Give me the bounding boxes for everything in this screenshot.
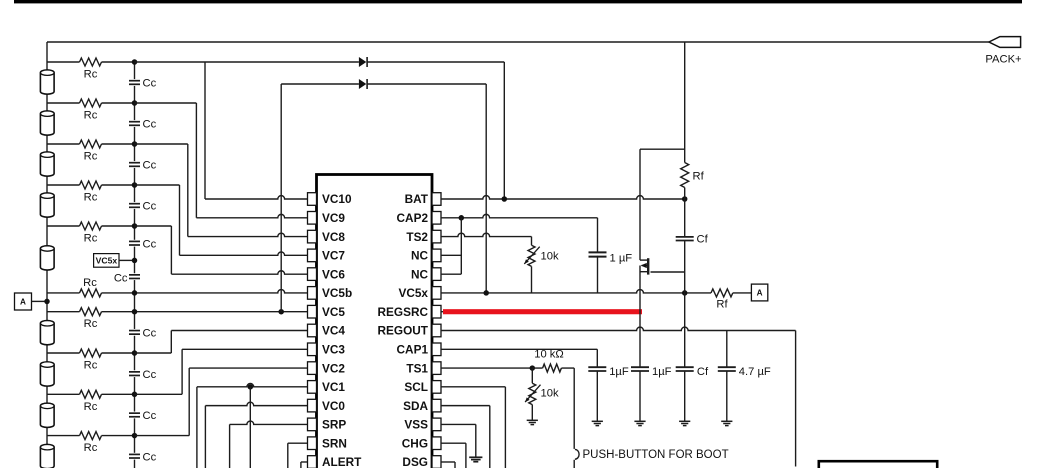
label R3 10 kOhm [534,349,564,361]
capacitor Cc2 [129,120,141,127]
junction VC5x chain [132,258,138,264]
svg-text:Cc: Cc [143,119,157,131]
wire VC5x label [119,259,135,261]
connector PACK+ [985,37,1021,66]
wire SRN pin row [288,442,308,444]
cell B4 [40,362,54,386]
resistor Rc8 [80,390,102,398]
label C4 1uF [652,366,672,378]
wire SRP riser [229,424,231,468]
wire CHG row [441,443,466,468]
wire VC5b row [47,290,308,293]
junction node3 [132,141,138,147]
resistor Rf1 [681,163,689,188]
wire gate [651,271,685,273]
svg-text:VC3: VC3 [322,342,345,356]
svg-text:Rf: Rf [716,299,728,311]
push-button contact [575,449,579,459]
node A right [751,284,767,301]
wire CAP1 row [441,349,597,421]
wire NC tie [441,218,461,274]
pin SCL [404,380,441,394]
capacitor Cc1 [129,79,141,86]
svg-text:SCL: SCL [404,380,428,394]
svg-text:VC8: VC8 [322,230,345,244]
svg-text:A: A [757,289,763,298]
svg-text:Rf: Rf [693,171,705,183]
pin VC9 [308,211,346,225]
wire VC6 pin row [171,271,307,274]
pin SDA [403,399,441,413]
label C3 1uF [609,366,629,378]
cell B10 [40,70,54,94]
svg-text:Rc: Rc [84,401,98,413]
junction node8 [132,392,138,398]
svg-text:Rc: Rc [84,233,98,245]
wire SRN riser [287,443,289,468]
label Cc2 [143,119,157,131]
wire node5 to VC6 [135,226,172,274]
capacitor Cc3 [129,161,141,168]
svg-text:VC4: VC4 [322,324,345,338]
resistor Rc7 [80,349,102,357]
svg-text:VC2: VC2 [322,361,345,375]
junction node2 [132,100,138,106]
svg-text:1 µF: 1 µF [610,253,633,265]
svg-text:Cc: Cc [114,273,128,285]
pin TS2 [406,230,441,244]
wire VC1 riser [196,387,198,468]
label Cc4 [143,201,157,213]
label Rc4 [84,192,98,204]
label Cf2 [697,366,709,378]
wire VC7 pin row [180,252,308,255]
wire Rc4 row [47,184,135,186]
pin ALERT [308,455,363,468]
pin VC2 [308,361,346,375]
pin NC [411,267,441,281]
top rule bar [14,0,1022,3]
cell B8 [40,152,54,176]
svg-text:VC5x: VC5x [398,286,428,300]
wire Cc chain [134,62,136,468]
svg-text:DSG: DSG [402,455,428,468]
cell B5 [40,321,54,345]
wire VC5 to diode D2 [281,83,359,85]
label Cc1 [143,78,157,90]
wire 4.7uF drop [726,330,728,421]
svg-text:10 kΩ: 10 kΩ [534,349,564,361]
svg-text:Rc: Rc [84,442,98,454]
svg-text:REGSRC: REGSRC [378,305,429,319]
svg-text:VC0: VC0 [322,399,345,413]
capacitor C5 4.7uF [718,367,736,371]
wire node1 to diode D1 [135,61,359,63]
svg-text:ALERT: ALERT [322,455,362,468]
wire SRP pin row [230,421,308,424]
svg-text:Cc: Cc [143,369,157,381]
resistor Rc9 [80,432,102,440]
resistor Rc2 [80,99,102,107]
wire battery stack [46,42,48,468]
label Rc VC5b [83,277,97,289]
label Cc6 [114,273,128,285]
pin VC7 [308,249,346,263]
resistor Rf2 [711,289,733,297]
wire VC5 row [47,311,308,313]
wire RT1 to gnd [531,405,533,421]
pin CAP1 [397,342,441,356]
svg-text:SRN: SRN [322,436,347,450]
label C2 1uF [610,253,633,265]
resistor Rc VC5 [80,308,102,316]
resistor R3 10kOhm [543,364,562,372]
label Rc8 [84,401,98,413]
svg-text:PACK+: PACK+ [985,54,1021,66]
wire RT2 to VC5x [531,266,533,293]
wire SCL row [441,387,505,468]
svg-text:BAT: BAT [405,192,429,206]
capacitor Cc9 [129,412,141,419]
cell B9 [40,111,54,135]
capacitor Cc8 [129,370,141,377]
junction VC5 diode tap [278,309,284,315]
junction BAT Rf [682,196,688,202]
svg-text:REGOUT: REGOUT [378,324,429,338]
capacitor Cc6 [129,273,141,280]
svg-text:VC9: VC9 [322,211,345,225]
diode D2 [359,79,367,89]
IC U1 body [317,175,433,468]
svg-text:NC: NC [411,249,429,263]
cell B7 [40,193,54,217]
pin VC6 [308,267,346,281]
label PUSH-BUTTON FOR BOOT [583,449,729,461]
svg-text:A: A [20,298,26,307]
pin VC4 [308,324,346,338]
wire boot drop [573,368,575,468]
pin CAP2 [397,211,441,225]
pin TS1 [406,361,441,375]
junction VC1 tap [248,384,254,390]
wire Cf2 drop [684,293,686,421]
pin NC [411,249,441,263]
capacitor Cf2 [676,367,694,371]
label Rf1 [693,171,705,183]
pin CHG [402,436,441,450]
svg-text:PUSH-BUTTON FOR BOOT: PUSH-BUTTON FOR BOOT [583,449,729,461]
junction A [44,299,50,305]
capacitor C2 1uF [589,252,607,256]
svg-text:Rc: Rc [84,360,98,372]
svg-text:VC5b: VC5b [322,286,352,300]
label Rc3 [84,151,98,163]
junction CAP2 NC [459,215,465,221]
cell B6 [40,246,54,270]
svg-text:Rc: Rc [83,277,97,289]
label C5 4.7uF [739,366,771,378]
junction BAT D1 [502,196,508,202]
wire VC8 pin row [188,233,308,236]
pin VC5x [398,286,441,300]
pin VC1 [308,380,346,394]
transistor Q1 [640,258,651,274]
wire node4 to VC7 [135,185,180,255]
cell B2 [40,444,54,468]
wire gate to VC5x [684,272,686,293]
wire Rf top tee [640,149,685,260]
ground Cf2 [679,421,690,425]
thermistor RT2 10k [524,245,539,266]
capacitor C4 1uF [631,367,649,371]
wire Rf to BAT [684,188,686,200]
wire Rf2 to A [733,292,752,294]
wire Rc7 row [47,352,135,354]
pin BAT [405,192,441,206]
label Cc3 [143,160,157,172]
svg-text:1µF: 1µF [652,366,672,378]
label Rc1 [84,69,98,81]
label Rc2 [84,110,98,122]
junction VC5x Cf [682,290,688,296]
wire Q1 source drop [639,266,641,422]
svg-text:VC10: VC10 [322,192,352,206]
svg-text:Cc: Cc [143,238,157,250]
wire REGSRC row [441,311,640,313]
svg-text:Rc: Rc [84,318,98,330]
svg-text:VSS: VSS [404,418,428,432]
label Cc9 [143,410,157,422]
pin VC5b [308,286,353,300]
wire VC9 pin row [196,214,307,217]
wire TS1 row [441,367,532,369]
junction node4 [132,182,138,188]
svg-text:Rc: Rc [84,151,98,163]
label Rc5 [84,233,98,245]
wire node to VC2 [135,368,308,436]
wire ALERT pin row [301,461,308,463]
wire BAT row [441,196,685,199]
svg-text:Cc: Cc [143,160,157,172]
wire Rc5 row [47,225,135,227]
svg-text:SRP: SRP [322,418,346,432]
pin VC0 [308,399,346,413]
svg-text:4.7 µF: 4.7 µF [739,366,771,378]
label Rc VC5 [84,318,98,330]
ground C4 [634,421,645,425]
svg-text:VC6: VC6 [322,267,345,281]
wire REGOUT row [441,327,796,466]
thermistor RT1 10k [525,383,540,404]
capacitor Cc10 [129,453,141,460]
label Cf1 [697,234,709,246]
svg-text:Cc: Cc [143,78,157,90]
resistor Rc5 [80,222,102,230]
wire BAT to Cf [684,199,686,237]
wire VSS row [441,424,476,457]
svg-text:Cc: Cc [143,451,157,463]
svg-text:Cf: Cf [697,234,709,246]
wire Rc8 row [47,393,135,395]
wire ALERT riser [300,462,302,468]
svg-text:TS2: TS2 [406,230,428,244]
net label VC5x [94,254,119,268]
wire PACK to Rf [684,42,686,163]
wire VC1 tap riser [249,387,251,468]
wire VC1 pin row [197,383,308,386]
wire Rc9 row [47,435,135,437]
resistor Rc4 [80,181,102,189]
wire VC0 riser [204,406,206,468]
junction VC5 chain [132,309,138,315]
pin REGOUT [378,324,441,338]
wire Cf to gate [684,241,686,273]
junction VC5b chain [132,290,138,296]
pin VC3 [308,342,346,356]
svg-text:Cc: Cc [143,328,157,340]
label Cc10 [143,451,157,463]
label Cc7 [143,328,157,340]
node A left [15,293,32,310]
wire DSG row [441,462,455,468]
wire Rc2 row [47,102,135,104]
svg-text:CAP1: CAP1 [397,342,429,356]
pin VC8 [308,230,346,244]
svg-text:1µF: 1µF [609,366,629,378]
svg-text:SDA: SDA [403,399,428,413]
junction TS1 [530,365,536,371]
svg-text:NC: NC [411,267,429,281]
capacitor Cc5 [129,240,141,247]
wire SDA row [441,406,490,468]
junction node7 [132,350,138,356]
wire A to stack [32,300,48,302]
label RT2 10k [541,251,559,263]
resistor Rc VC5b [80,289,102,297]
label Rf2 [716,299,728,311]
svg-text:Cc: Cc [143,201,157,213]
label Cc5 [143,238,157,250]
ground VSS [469,457,482,461]
wire CAP2 cap drop [597,218,599,293]
wire node1 drop [204,62,206,199]
svg-text:10k: 10k [541,251,559,263]
pin SRP [308,418,347,432]
wire TS2 row [441,233,532,245]
pin REGSRC [378,305,441,319]
svg-text:VC5: VC5 [322,305,345,319]
pin VSS [404,418,441,432]
label Rc9 [84,442,98,454]
capacitor Cc4 [129,202,141,209]
wire Rc1 row [47,61,135,63]
svg-text:CAP2: CAP2 [397,211,429,225]
wire CAP2 row [441,214,598,217]
svg-text:VC7: VC7 [322,249,345,263]
wire D2 to VC5x [367,84,486,293]
pin VC10 [308,192,352,206]
resistor Rc1 [80,58,102,66]
svg-text:Cf: Cf [697,366,709,378]
wire TS1 thermistor drop [531,368,533,383]
wire VC10 pin row [205,196,308,199]
capacitor C3 1uF [588,367,606,371]
resistor Rc3 [80,140,102,148]
pin SRN [308,436,347,450]
wire D1 to BAT [367,62,504,199]
svg-text:VC1: VC1 [322,380,345,394]
junction node5 [132,223,138,229]
label Cc8 [143,369,157,381]
wire node to VC4 [135,330,308,353]
svg-text:VC5x: VC5x [96,255,118,265]
pin VC5 [308,305,346,319]
wire VC5x row [441,290,711,293]
capacitor Cc7 [129,329,141,336]
wire Rc3 row [47,143,135,145]
note box [819,461,937,468]
svg-text:Cc: Cc [143,410,157,422]
highlight REGSRC red [443,309,642,314]
label Rc7 [84,360,98,372]
label RT1 10k [541,388,559,400]
wire node to VC3 [135,349,308,394]
wire VC0 pin row [205,402,307,405]
svg-text:CHG: CHG [402,436,428,450]
wire VC5 riser [280,84,282,312]
ground C3 [592,421,603,425]
svg-text:Rc: Rc [84,69,98,81]
cell B3 [40,403,54,427]
junction VC5x D2 [483,290,489,296]
wire PACK+ top rail [47,41,989,43]
capacitor Cf1 [676,237,694,241]
svg-text:TS1: TS1 [406,361,428,375]
diode D1 [359,57,367,67]
junction node1 [132,59,138,65]
svg-text:Rc: Rc [84,192,98,204]
svg-text:10k: 10k [541,388,559,400]
pin DSG [402,455,441,468]
junction node9 [132,433,138,439]
wire node3 to VC8 [135,144,188,237]
ground RT1 [527,420,538,424]
svg-text:Rc: Rc [84,110,98,122]
ground C5 [721,421,732,425]
wire node2 to VC9 [135,103,197,218]
wire 10k resistor row [532,367,574,369]
